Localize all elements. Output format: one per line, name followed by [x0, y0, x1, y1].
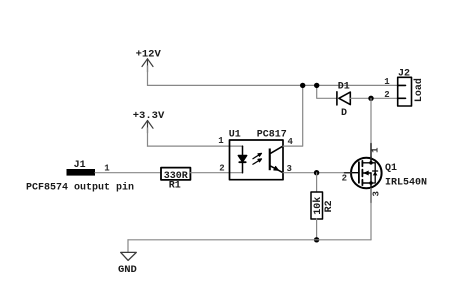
svg-text:10k: 10k: [312, 197, 324, 215]
svg-text:R2: R2: [324, 200, 335, 212]
diode D1: [337, 92, 350, 105]
drain connect: [362, 157, 371, 163]
svg-text:2: 2: [342, 174, 347, 184]
svg-text:D: D: [341, 108, 347, 119]
channel segment top: [361, 161, 363, 166]
phototransistor inside U1: [269, 146, 283, 173]
Q1 gate pin: [345, 172, 352, 174]
Q1 drain pin: [370, 144, 372, 159]
svg-text:PCF8574 output pin: PCF8574 output pin: [26, 182, 134, 194]
power symbol +12V: [142, 59, 153, 72]
wire +3.3V stem: [147, 128, 149, 146]
svg-text:D1: D1: [338, 82, 350, 93]
wire GND rail: [128, 239, 371, 241]
wire GND stub: [127, 240, 129, 253]
wire +3.3V to U1 pin 1: [148, 145, 243, 147]
svg-text:2: 2: [384, 90, 389, 100]
svg-text:Load: Load: [413, 78, 425, 102]
connector J1: [67, 169, 96, 176]
transistor Q1: [351, 157, 382, 189]
svg-text:GND: GND: [118, 264, 137, 276]
node rail / D1 branch junction: [314, 83, 319, 88]
svg-text:U1: U1: [229, 129, 241, 140]
body diode branch: [371, 163, 375, 183]
wire source to GND rail: [370, 188, 372, 240]
svg-text:Q1: Q1: [385, 163, 397, 174]
wire D1 anode to J2 pin 2: [350, 97, 397, 99]
svg-text:+12V: +12V: [136, 49, 162, 61]
node drain tap: [369, 161, 373, 165]
svg-text:J2: J2: [398, 68, 410, 79]
svg-text:1: 1: [371, 147, 381, 153]
node gate / R2 junction: [314, 170, 319, 175]
wire rail to D1 branch: [317, 85, 337, 98]
wire R2 top: [316, 173, 318, 192]
resistor R2: [311, 192, 323, 219]
gate lead: [352, 172, 359, 174]
svg-text:1: 1: [218, 136, 224, 146]
wire R1 to U1 pin 2: [190, 172, 242, 174]
body diode bar: [373, 170, 378, 172]
svg-text:R1: R1: [169, 180, 181, 191]
LED inside U1: [238, 146, 246, 173]
wire J1 to R1: [95, 172, 161, 174]
node D1 / drain junction: [368, 96, 373, 101]
gate bar: [358, 162, 360, 183]
photon arrows inside U1: [253, 153, 262, 164]
svg-text:3: 3: [372, 191, 382, 196]
body diode triangle: [373, 171, 378, 175]
channel segment middle: [361, 170, 363, 177]
power symbol +3.3V: [142, 121, 153, 134]
wire U1 pin 4 to +12V rail: [283, 85, 303, 146]
node R2 / GND rail junction: [314, 237, 319, 242]
svg-text:PC817: PC817: [257, 129, 287, 140]
svg-text:1: 1: [104, 164, 110, 174]
svg-text:1: 1: [384, 77, 390, 87]
wire +12V stem: [147, 66, 149, 85]
node source tap: [369, 181, 373, 185]
svg-text:+3.3V: +3.3V: [133, 110, 165, 122]
wire +12V rail: [148, 84, 398, 86]
op-amp U1 body (optocoupler PC817 box): [230, 140, 284, 180]
channel segment bottom: [361, 180, 363, 185]
svg-text:J1: J1: [74, 160, 86, 171]
substrate arrow: [363, 172, 371, 174]
ground: [121, 252, 137, 260]
source connect: [362, 183, 371, 189]
wire R2 bottom: [316, 219, 318, 240]
svg-text:IRL540N: IRL540N: [385, 177, 427, 188]
wire drain vertical: [370, 98, 372, 163]
Q1 source pin: [370, 188, 372, 202]
wire U1 pin 3 to gate: [283, 172, 352, 174]
connector J2: [398, 77, 412, 106]
svg-text:4: 4: [287, 137, 293, 147]
resistor R1: [161, 168, 190, 180]
svg-text:2: 2: [219, 163, 224, 173]
node U1 pin4 / rail junction: [300, 83, 305, 88]
